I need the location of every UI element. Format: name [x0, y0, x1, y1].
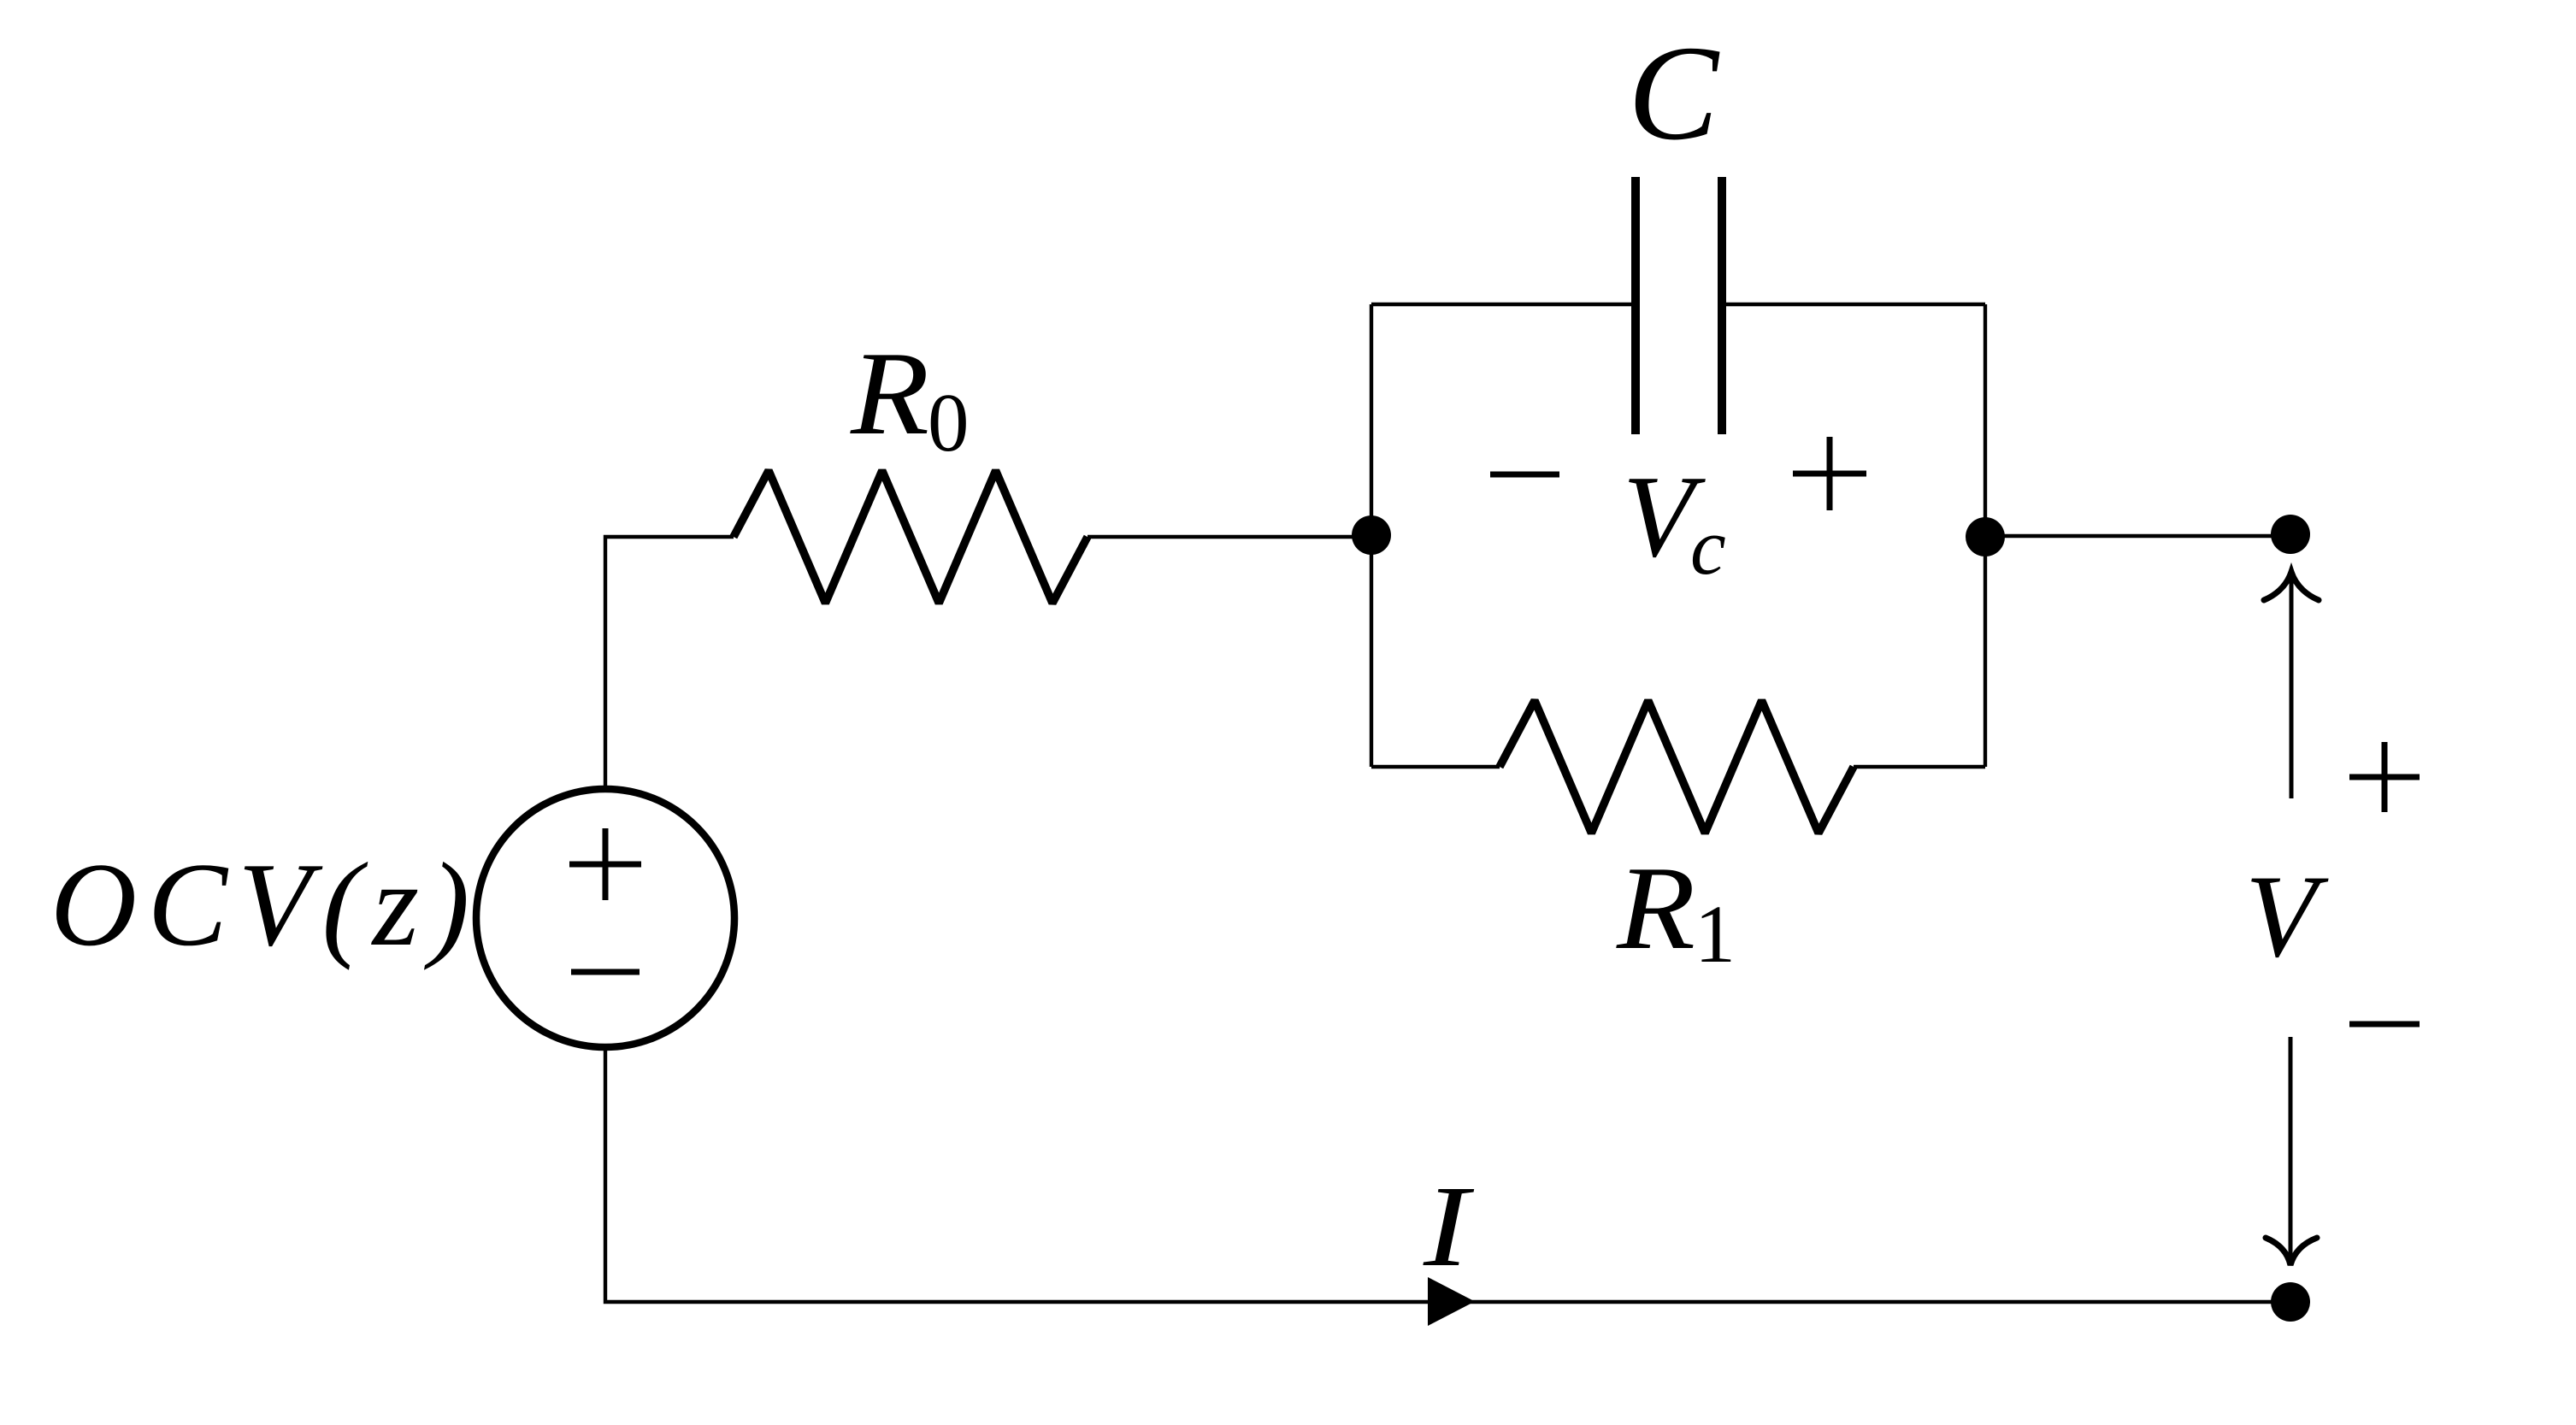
label plus of Vc: [1793, 437, 1866, 510]
wire: parallel top left: [1371, 303, 1631, 306]
label R0: [850, 327, 970, 468]
label R1: [1616, 842, 1736, 980]
svg-text:C: C: [1628, 18, 1720, 168]
svg-text:1: 1: [1695, 888, 1736, 980]
svg-text:I: I: [1423, 1163, 1475, 1291]
wire: parallel right vertical: [1984, 304, 1987, 767]
svg-text:0: 0: [928, 377, 970, 468]
svg-text:V: V: [2245, 851, 2329, 981]
node B: [1966, 517, 2005, 556]
resistor R1: [1500, 701, 1854, 833]
wire: parallel bottom left: [1371, 765, 1500, 768]
wire: source bottom down and bottom rail: [605, 1047, 2290, 1302]
terminal dot top right: [2271, 515, 2310, 554]
arrow up (V plus side): [2264, 572, 2319, 798]
wire: R1 to right vertical: [1854, 765, 1985, 768]
terminal dot bottom right: [2271, 1282, 2310, 1322]
svg-text:R: R: [1616, 842, 1695, 975]
wire: R0 to node A: [1088, 535, 1371, 539]
arrow down (V minus side): [2266, 1037, 2317, 1265]
wire: node B to output top terminal: [1985, 534, 2290, 538]
resistor R0: [734, 471, 1088, 604]
plus inside source: [569, 828, 641, 900]
wire: parallel left vertical: [1370, 304, 1373, 767]
label plus of V: [2349, 742, 2420, 812]
svg-text:c: c: [1690, 503, 1726, 592]
voltage source U1 circle: [476, 789, 734, 1047]
wire: source top to R0: [605, 537, 734, 789]
svg-text:OCV(z): OCV(z): [50, 839, 480, 971]
label Vc: [1623, 451, 1726, 592]
current arrow I: [1428, 1277, 1475, 1326]
label minus of Vc: [1490, 472, 1559, 478]
wire: parallel top right: [1726, 303, 1985, 306]
node A: [1352, 515, 1391, 555]
svg-text:R: R: [850, 327, 929, 460]
label minus of V: [2349, 1022, 2420, 1028]
capacitor C plates: [1631, 177, 1640, 434]
minus inside source: [571, 969, 640, 975]
